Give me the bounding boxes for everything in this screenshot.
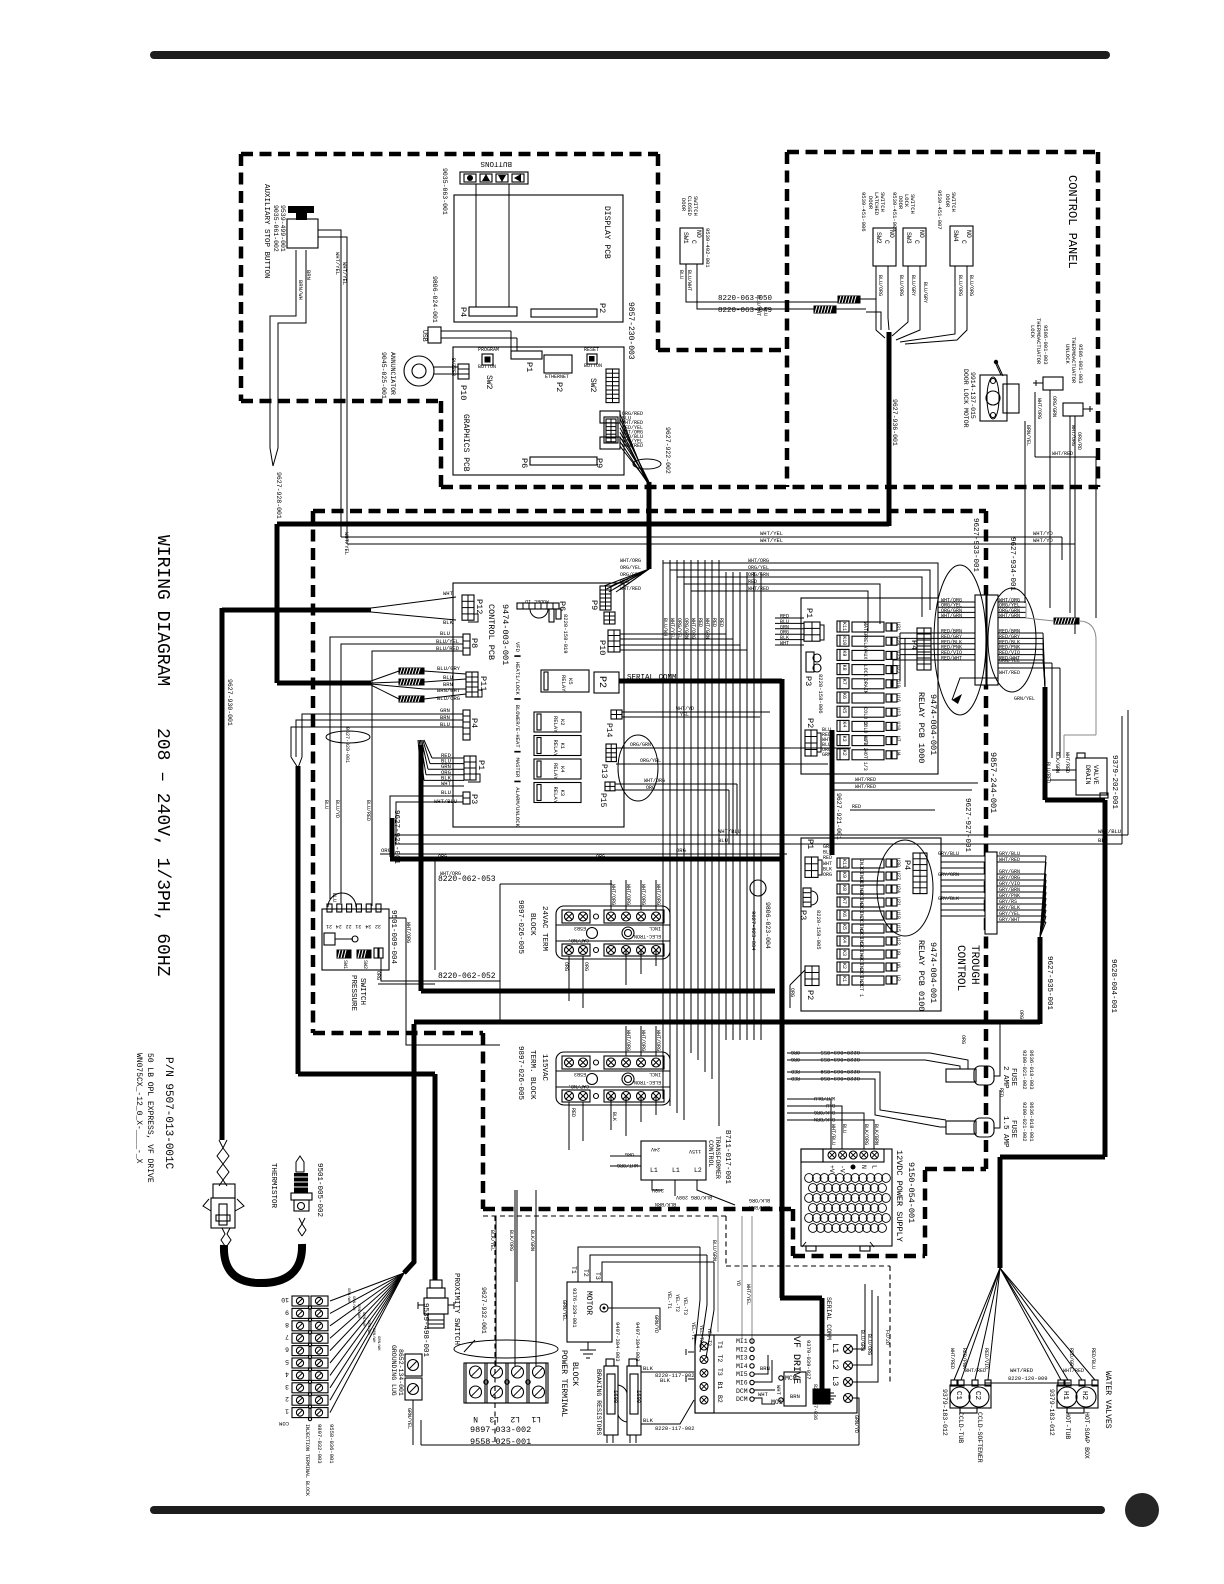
svg-text:MI2: MI2 [736,1346,748,1353]
svg-text:ORG: ORG [596,854,605,860]
svg-text:ORG: ORG [381,847,391,854]
bulkhead connector upper 9627-933-001 [975,595,986,685]
svg-text:L3: L3 [489,1414,499,1423]
connector P1 relay0100 [805,857,818,877]
connector P6 model id [517,603,559,609]
svg-text:WHT/ORG: WHT/ORG [405,922,411,943]
svg-text:N: N [473,1414,478,1423]
svg-text:8220-063-055: 8220-063-055 [820,1049,860,1056]
control transformer B711-017-001 [641,1141,706,1180]
wire P8 BLU/BLUYEL/BLURED [330,637,463,906]
svg-text:INJECTION TERMINAL BLOCK: INJECTION TERMINAL BLOCK [304,1424,310,1496]
wires transformer bottom taps [652,1180,735,1205]
svg-text:K7: K7 [841,898,847,904]
svg-text:MI5: MI5 [736,1371,748,1378]
svg-text:9627-933-001: 9627-933-001 [971,518,979,573]
VF drive 9379-039-027 [695,1335,857,1413]
svg-text:208V: 208V [676,1194,688,1200]
svg-text:P9: P9 [594,458,604,468]
thermistor 9501-005-002 twisted leads [217,1140,229,1186]
svg-text:TERM. BLOCK: TERM. BLOCK [528,1050,536,1100]
svg-text:LOCK: LOCK [862,665,868,677]
svg-text:L: L [870,1165,877,1169]
svg-text:BLU: BLU [841,1124,847,1133]
svg-text:32: 32 [375,923,381,929]
wires into power block [496,1190,536,1366]
wire serial comm cable [619,679,822,1389]
svg-text:BRN: BRN [305,270,312,280]
buttons strip [460,172,528,184]
door closed switch SW1 [680,228,703,264]
svg-text:RELAY PCB 0100: RELAY PCB 0100 [916,940,926,1011]
svg-text:SW2: SW2 [588,378,597,393]
dashed enclosure VF drive thin [483,1216,890,1443]
connector P4 [463,710,470,740]
svg-text:SW1: SW1 [682,232,689,244]
svg-text:GRN/YEL: GRN/YEL [999,658,1020,664]
wire P10 stubs [620,634,747,650]
svg-text:WHT/RED: WHT/RED [620,586,641,592]
svg-text:P6: P6 [519,458,529,468]
svg-text:RELAY: RELAY [552,740,559,757]
page top rule [150,51,1110,59]
svg-text:BLK/ORG: BLK/ORG [749,1197,770,1203]
svg-text:9627-921-001: 9627-921-001 [835,793,842,840]
svg-text:ORG: ORG [438,854,447,860]
svg-text:9200-021-002: 9200-021-002 [1021,1102,1028,1142]
wire hop arc pressure [328,893,356,907]
door lock motor 9914-137-015 [980,375,1007,421]
wires transformer left [610,1156,641,1166]
24VAC terminal block 9897-026-005 [556,906,670,959]
connector P15 [605,782,615,791]
svg-text:K11: K11 [841,622,847,631]
svg-text:C2: C2 [973,1391,981,1400]
svg-text:BLU: BLU [440,630,450,637]
relay rows 1000 [837,621,849,632]
svg-text:4: 4 [285,1370,289,1377]
svg-text:GRN: GRN [440,707,450,714]
wire aux stop down pair [270,250,306,466]
wires fuse right side [994,1024,1000,1128]
svg-text:L2: L2 [510,1414,520,1423]
svg-text:P1: P1 [476,760,486,770]
svg-text:K3: K3 [841,950,847,956]
svg-text:WHT/BLU: WHT/BLU [718,828,741,835]
svg-text:WHT/ORG: WHT/ORG [620,558,641,564]
fuse 2 amp 8636-018-003 [946,1069,976,1082]
wire BLU/GRN YD WHT/YEL verticals [718,1216,752,1344]
dashed enclosure display area [241,154,787,487]
svg-text:BRN: BRN [440,714,450,721]
svg-text:HOT-SOAP BOX: HOT-SOAP BOX [1083,1412,1090,1459]
svg-text:SW4: SW4 [952,230,959,242]
svg-text:MO1: MO1 [771,1399,783,1406]
svg-text:RESET: RESET [584,347,599,353]
svg-text:RED: RED [570,1108,576,1117]
svg-text:BUZZER: BUZZER [450,358,456,376]
svg-text:WHT/ORG: WHT/ORG [690,618,696,639]
svg-text:ORG: ORG [789,988,795,997]
svg-text:RED: RED [998,1088,1004,1097]
svg-text:8220-063-050: 8220-063-050 [718,295,773,303]
svg-text:K1: K1 [559,743,566,750]
wire pressure switch ORG out [381,958,500,981]
svg-text:YEL-T2: YEL-T2 [698,1325,704,1343]
svg-text:ELEC-TRON: ELEC-TRON [634,1079,661,1085]
svg-text:WHT: WHT [441,780,452,787]
svg-text:BLU/ORG: BLU/ORG [968,275,974,296]
svg-text:9806-023-004: 9806-023-004 [764,902,771,949]
svg-text:DCM: DCM [736,1388,748,1395]
svg-text:P8: P8 [469,638,479,648]
svg-text:INJCT 1: INJCT 1 [858,976,864,997]
svg-text:8636-018-001: 8636-018-001 [1028,1102,1035,1142]
VF drive MCM box [784,1372,806,1406]
svg-text:K4: K4 [559,766,566,773]
relay rows 0100 [837,858,849,868]
svg-text:ANNUNCIATOR: ANNUNCIATOR [389,352,396,395]
svg-text:SW1: SW1 [342,960,348,969]
svg-text:2: 2 [285,1395,289,1402]
svg-text:9501-005-002: 9501-005-002 [315,1163,323,1217]
svg-text:UNLOCK: UNLOCK [1064,344,1071,365]
svg-text:YD: YD [735,1280,741,1286]
svg-text:P6: P6 [557,601,567,611]
svg-text:RED: RED [852,804,861,810]
svg-text:115V: 115V [689,1148,701,1154]
svg-text:8652-134-001: 8652-134-001 [397,1349,404,1396]
svg-text:9627-934-001: 9627-934-001 [1008,537,1016,592]
svg-text:ORG/GRN: ORG/GRN [1051,396,1057,417]
svg-text:BLK: BLK [443,619,454,626]
svg-text:WHT/ORG: WHT/ORG [655,1030,661,1051]
wires 24vac bottom [569,950,656,1008]
svg-text:THERMOACTUATOR: THERMOACTUATOR [1035,318,1042,365]
svg-text:L1: L1 [650,1167,658,1174]
svg-text:P2: P2 [805,990,815,1000]
svg-text:U24: U24 [895,884,901,893]
wire fan injection [330,1273,404,1301]
svg-text:P3: P3 [803,676,813,686]
wire aux stop right pair WHT/YEL [318,230,347,544]
svg-text:K7: K7 [841,679,847,685]
wires into power supply [787,1099,831,1149]
svg-text:WHT/BLU: WHT/BLU [434,798,457,805]
svg-text:9627-923-004: 9627-923-004 [750,911,757,951]
svg-text:8220-157-036: 8220-157-036 [812,1384,818,1420]
svg-text:PROXIMITY SWITCH: PROXIMITY SWITCH [452,1273,460,1345]
connector P8 [463,634,470,655]
connector P1 relay1000 [804,622,820,641]
svg-text:CONTROL: CONTROL [954,945,966,991]
svg-text:NO: NO [918,230,925,238]
svg-text:WHT/YEL: WHT/YEL [343,532,350,555]
auxiliary stop button [287,219,318,248]
program button SW2 [482,354,493,365]
svg-text:WHT/YEL: WHT/YEL [669,618,675,639]
svg-text:9806-024-001: 9806-024-001 [431,276,438,323]
svg-text:-V: -V [839,1165,846,1173]
svg-text:HOT-TUB: HOT-TUB [1064,1412,1071,1439]
wire cable 9627-921-001 P3 harness [390,818,782,859]
svg-text:DCM: DCM [736,1396,748,1403]
svg-text:T2: T2 [582,1269,589,1277]
svg-text:N: N [860,1165,867,1169]
svg-text:1.5 AMP: 1.5 AMP [1001,1116,1009,1148]
annunciator 9045-025-001 [404,356,434,386]
svg-text:RED: RED [697,618,703,627]
svg-text:RELAY: RELAY [862,636,868,651]
svg-text:YEL-T3: YEL-T3 [706,1328,712,1346]
svg-text:CAP/NO.: CAP/NO. [568,937,589,943]
svg-text:MODEL ID: MODEL ID [525,598,549,604]
svg-text:9627-929-001: 9627-929-001 [344,727,350,763]
svg-text:BLU/ORG: BLU/ORG [877,275,883,296]
svg-text:YEL-T3: YEL-T3 [682,1297,688,1315]
svg-text:10: 10 [281,1296,289,1303]
svg-text:LOCK: LOCK [903,194,910,208]
svg-text:BLU: BLU [826,1102,835,1108]
connector P1 graphics [511,351,542,359]
svg-text:WIRING DIAGRAM: WIRING DIAGRAM [152,535,172,686]
svg-text:DOOR LOCK MOTOR: DOOR LOCK MOTOR [962,369,969,428]
svg-text:31: 31 [355,923,361,929]
svg-text:BLOCK: BLOCK [570,1362,579,1386]
svg-text:SWITCH: SWITCH [358,978,366,1005]
svg-text:H2: H2 [1080,1391,1088,1400]
svg-text:WHT/ORG: WHT/ORG [610,884,616,905]
svg-text:ORG: ORG [583,962,589,971]
svg-text:U12: U12 [895,936,901,945]
svg-text:9558-036-001: 9558-036-001 [328,1424,335,1464]
wire fan P12 [371,597,456,620]
svg-text:ORG/GRN: ORG/GRN [683,618,689,639]
svg-text:ORG/YEL: ORG/YEL [676,618,682,639]
svg-text:BLU: BLU [443,674,453,681]
wires out of upper bulkhead right [998,601,1026,603]
water valve hot H1 H2 9379-183-012 [1057,1385,1098,1408]
wire cable pressure harness [298,766,435,1074]
connector P2 display [531,309,597,317]
svg-text:9497-304-003: 9497-304-003 [614,1322,621,1362]
svg-text:INCL: INCL [649,925,661,931]
svg-text:8: 8 [285,1321,289,1328]
svg-text:P/N 9507-013-001C: P/N 9507-013-001C [162,1057,174,1170]
wires DCM serial [754,1390,775,1404]
connector P2 relay0100 [805,966,819,986]
svg-text:U31: U31 [895,622,901,631]
svg-text:WHT: WHT [443,590,454,597]
pressure switch 9501-009-004 [322,909,389,970]
wires to fuses [787,1053,968,1127]
svg-text:K10: K10 [841,636,847,645]
svg-text:9200-021-002: 9200-021-002 [1021,1050,1028,1090]
svg-text:P13: P13 [599,764,608,779]
svg-text:WHT/BLU: WHT/BLU [814,1095,835,1101]
svg-text:WHT/ORG: WHT/ORG [625,1030,631,1051]
svg-text:50 LB OPL EXPRESS, VF DRIVE: 50 LB OPL EXPRESS, VF DRIVE [145,1053,154,1183]
svg-text:WHT/ORG: WHT/ORG [655,884,661,905]
svg-text:9376-329-001: 9376-329-001 [571,1288,578,1328]
svg-text:WHT/RED: WHT/RED [855,777,876,783]
wires VF L1 L2 L3 up [853,1284,878,1382]
connector P3 control [463,792,470,804]
svg-text:VFD ▌ HEAT1/LOCK ▌ BLOWER/E-HE: VFD ▌ HEAT1/LOCK ▌ BLOWER/E-HEAT ▌ MASTE… [514,642,521,828]
wire WHT/ORG vertical [389,918,500,1045]
svg-text:P1: P1 [524,362,534,372]
cable label 9806-023-004 [750,880,766,896]
svg-text:MI6: MI6 [736,1380,748,1387]
fuse 1.5 amp 8636-018-001 [946,1121,976,1134]
svg-text:P2: P2 [805,718,815,728]
svg-text:BLU/RED: BLU/RED [1045,762,1051,783]
wire door lock harness drops [1025,390,1096,634]
svg-text:WHT: WHT [758,1391,769,1398]
svg-text:9035-061-002: 9035-061-002 [272,205,279,252]
wire cable drain/water 9628-004-001 [1000,687,1105,1268]
svg-text:GRN/YEL: GRN/YEL [561,1300,567,1321]
svg-text:1: 1 [285,1408,289,1415]
svg-text:U4: U4 [895,750,901,756]
svg-text:CCLD-SOFTENER: CCLD-SOFTENER [976,1412,983,1463]
svg-text:BLOCK: BLOCK [528,913,536,936]
wires 24vac top [610,880,612,910]
svg-text:P1: P1 [805,839,815,849]
svg-text:ORG/YEL: ORG/YEL [620,565,641,571]
svg-text:9379-183-012: 9379-183-012 [1048,1389,1055,1436]
svg-text:BLK/BRN: BLK/BRN [749,1204,770,1210]
svg-text:SWITCH: SWITCH [950,192,957,212]
svg-text:COM: COM [279,1420,289,1427]
svg-text:L3: L3 [830,1376,840,1386]
svg-text:8220-158-006: 8220-158-006 [817,674,824,714]
svg-text:MI1: MI1 [736,1338,748,1345]
connector P4 display [469,307,517,316]
connector P14 [611,710,622,719]
svg-text:GRN/YD: GRN/YD [853,1415,859,1433]
wires YEL-T to VF [695,1300,714,1358]
power supply feet [806,1246,816,1251]
svg-text:9150-054-001: 9150-054-001 [906,1162,916,1223]
svg-text:WHT/YEL: WHT/YEL [760,537,783,544]
svg-text:WHT: WHT [780,641,789,647]
svg-text:+V: +V [828,1165,835,1173]
wire VF ground [421,1398,859,1445]
svg-text:PRESSURE: PRESSURE [349,975,357,1012]
svg-text:9539-451-007: 9539-451-007 [936,190,943,230]
svg-text:9539-492-001: 9539-492-001 [704,228,711,268]
svg-text:GROUNDING LUG: GROUNDING LUG [390,1345,397,1396]
svg-text:ORG/GRN: ORG/GRN [748,572,769,578]
svg-text:GRN/YEL: GRN/YEL [406,1408,412,1429]
svg-text:WHT/RED: WHT/RED [748,586,769,592]
svg-text:U18: U18 [895,910,901,919]
relays K2 K1 K4 K3 [534,712,581,732]
svg-text:P4: P4 [469,718,479,728]
svg-text:DRAIN: DRAIN [862,679,868,694]
svg-text:RED: RED [711,618,717,627]
svg-text:9474-003-001: 9474-003-001 [500,604,510,665]
svg-text:208 – 240V, 1/3PH, 60HZ: 208 – 240V, 1/3PH, 60HZ [152,728,172,977]
svg-text:GRN/YEL: GRN/YEL [1014,696,1035,702]
svg-text:9627-930-001: 9627-930-001 [226,679,233,726]
svg-text:9897-026-005: 9897-026-005 [516,900,524,955]
svg-text:RED: RED [791,1075,800,1081]
svg-text:RED/VIO: RED/VIO [983,1348,989,1369]
wires 115vac top [625,1026,627,1056]
svg-text:9857-230-003: 9857-230-003 [626,302,635,360]
svg-text:GRN/WH: GRN/WH [376,1336,381,1351]
svg-text:USB: USB [421,330,428,342]
svg-text:34: 34 [365,923,371,929]
svg-text:DRAIN: DRAIN [1084,765,1091,785]
svg-text:K4: K4 [841,721,847,727]
svg-text:BRAKING RESISTORS: BRAKING RESISTORS [595,1369,602,1435]
svg-text:CAP/NO.: CAP/NO. [568,1083,589,1089]
power terminal block 9897-033-002 [464,1363,546,1403]
svg-text:K11: K11 [841,859,847,868]
svg-text:U9: U9 [895,949,901,955]
connector P12 [462,595,474,620]
svg-text:INCL: INCL [649,1071,661,1077]
svg-text:BLU: BLU [331,893,337,902]
wire fan control P9 [604,569,649,586]
wire WHT/RED between valves [985,1382,1070,1384]
svg-text:T2: T2 [716,1355,723,1363]
dashed enclosure control panel [441,152,1098,487]
wire fan P11 inline connectors [399,668,424,674]
svg-text:24: 24 [336,923,342,929]
svg-text:WHT/ORG: WHT/ORG [1070,425,1076,446]
pressure switch mechanism [324,933,335,945]
svg-text:MI4: MI4 [736,1363,748,1370]
svg-text:ORG: ORG [1018,1010,1024,1019]
svg-text:BLU/RED: BLU/RED [365,800,371,821]
svg-text:WHT/RED: WHT/RED [999,857,1020,863]
svg-text:B711-017-001: B711-017-001 [723,1130,731,1185]
svg-text:MOTOR: MOTOR [584,1291,593,1315]
wire fan graphics P9 to cable [620,414,647,482]
water valve cold C1 C2 9379-183-012 [950,1385,991,1408]
thermistor connector [213,1184,235,1198]
thermistor probe [296,1156,304,1172]
connector P4 relay1000 [917,628,931,670]
svg-text:P4: P4 [902,860,912,870]
svg-text:BLU: BLU [678,270,684,279]
svg-text:9539-499-001: 9539-499-001 [279,205,286,252]
wires into upper bulkhead left [938,601,975,603]
connector P4 relay0100 [913,853,927,894]
svg-text:K3: K3 [559,790,566,797]
svg-text:BLK/YEL: BLK/YEL [489,1230,495,1251]
svg-text:BUTTON: BUTTON [478,364,496,370]
connector P9 graphics with wires [600,411,620,423]
svg-text:L2: L2 [694,1167,702,1174]
svg-text:WHT/YEL: WHT/YEL [341,262,348,285]
svg-text:ORG: ORG [375,971,381,980]
thermistor upper twisted right [298,1218,306,1236]
svg-text:P4: P4 [458,307,468,317]
115VAC terminal block 9897-026-005 [556,1052,670,1105]
connector P1 control [464,756,476,780]
wire cable to P11 [277,681,371,686]
svg-text:SWITCH: SWITCH [692,196,699,216]
svg-text:GRAPHICS PCB: GRAPHICS PCB [461,414,470,472]
svg-text:6: 6 [285,1346,289,1353]
svg-text:22: 22 [346,923,352,929]
svg-text:K2: K2 [841,963,847,969]
